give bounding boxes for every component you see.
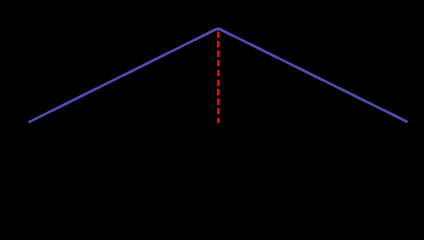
triangle waveform plot — [0, 0, 424, 150]
red dashed vertical line at peak — [217, 31, 219, 123]
blue triangle (tent) polyline — [29, 29, 408, 122]
